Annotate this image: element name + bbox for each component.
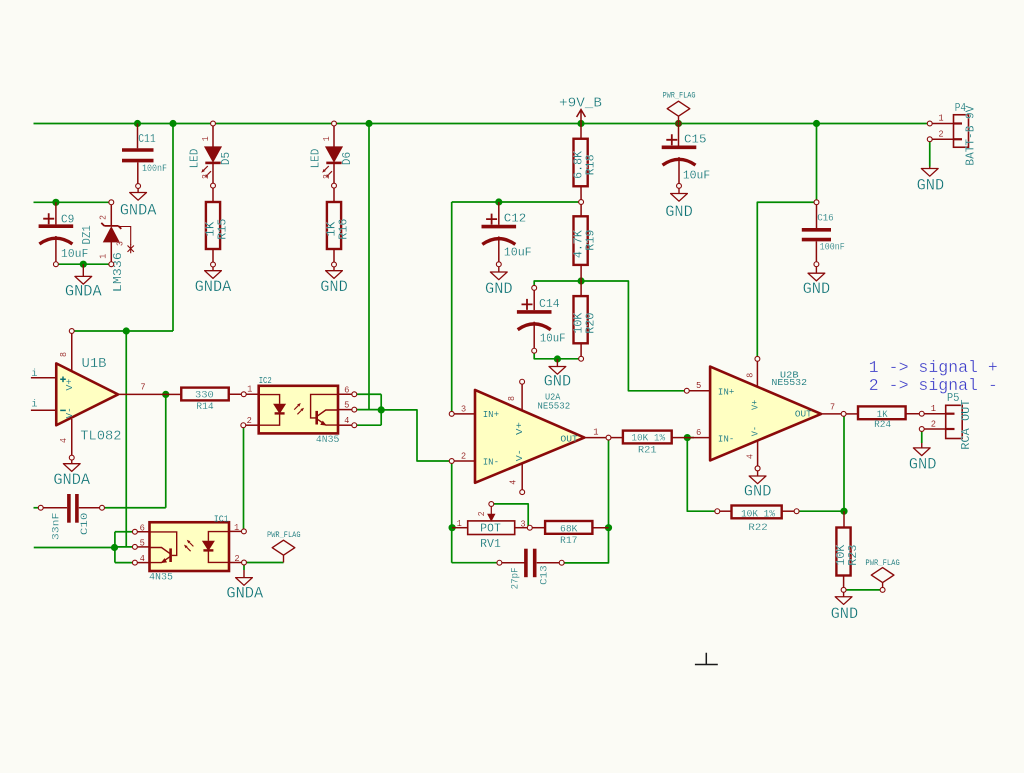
svg-text:DZ1: DZ1 [81, 225, 94, 244]
wire: R17 junction down to C13 right [562, 528, 609, 563]
svg-text:1: 1 [99, 254, 109, 259]
optocoupler IC2 4N35 [259, 386, 338, 434]
ground GNDA (C9/DZ1) [82, 264, 84, 276]
svg-text:OUT: OUT [560, 433, 578, 444]
wire: C10 left stub [34, 507, 41, 509]
PWR_FLAG at C15 rail [667, 101, 690, 123]
wire: rail drop to U1B V+ rail [172, 124, 174, 332]
svg-text:5: 5 [140, 539, 145, 549]
svg-text:C12: C12 [504, 212, 527, 225]
LED D5 [212, 124, 214, 147]
svg-text:IN+: IN+ [718, 386, 735, 397]
PWR_FLAG at R23 [871, 568, 894, 590]
svg-text:4: 4 [344, 416, 349, 426]
wire: vertical from U1B rail to IC1 pin5 [125, 331, 127, 547]
svg-text:R17: R17 [560, 535, 578, 547]
svg-text:1: 1 [247, 385, 252, 395]
ground GNDA (IC1 pin2) [243, 570, 245, 578]
op-amp U1B TL082 [56, 363, 118, 425]
wire: IC1 pin4 connect [115, 562, 135, 564]
svg-text:V+: V+ [514, 422, 525, 435]
wire: R21 right junction to U2B IN- [687, 437, 694, 439]
svg-text:IC2: IC2 [259, 375, 272, 386]
svg-text:+9V_B: +9V_B [559, 96, 602, 112]
svg-text:10K 1%: 10K 1% [631, 432, 665, 444]
svg-text:i: i [31, 368, 37, 380]
wire: middle net y=202 C12/R18 [452, 201, 581, 203]
svg-text:C15: C15 [684, 134, 707, 147]
ground GNDA (C11) [137, 186, 139, 193]
PWR_FLAG at IC1 pin2 [272, 540, 295, 562]
wire: IC2 pin2 to IC1 pin1 [243, 425, 245, 531]
wire: U2A OUT down to R17 junction [608, 438, 610, 528]
ground GND (R16) [333, 265, 335, 271]
svg-text:NE5532: NE5532 [537, 400, 570, 411]
ground GNDA (U1B pin4) [71, 458, 73, 464]
capacitor C11 [137, 124, 139, 149]
wire: R23 bottom to PWR_FLAG [844, 589, 883, 591]
capacitor C10 33nF (horizontal) [43, 507, 67, 509]
junction D6 rail drop [365, 120, 372, 127]
svg-text:D6: D6 [341, 152, 354, 165]
svg-text:GNDA: GNDA [226, 584, 263, 602]
svg-text:C16: C16 [817, 213, 834, 225]
wire: C9/DZ1 bottom net [56, 263, 111, 265]
svg-text:C13: C13 [538, 565, 550, 585]
capacitor C13 27pF (horizontal) [502, 562, 525, 564]
svg-text:GNDA: GNDA [65, 283, 102, 301]
svg-text:5: 5 [696, 381, 701, 391]
ground GND (R23) [843, 590, 845, 597]
resistor R17 68K [530, 527, 545, 529]
wire: C16 node left to U2B V+ drop [757, 202, 816, 359]
svg-text:4: 4 [59, 438, 69, 443]
svg-text:R23: R23 [847, 545, 860, 566]
ground GND (C12) [498, 264, 500, 272]
svg-text:6: 6 [140, 523, 145, 533]
junction IC2 outputs [378, 406, 385, 413]
svg-text:C10: C10 [79, 513, 91, 536]
svg-text:1: 1 [938, 114, 943, 124]
svg-text:1: 1 [234, 523, 239, 533]
capacitor C9 10uF [55, 202, 57, 224]
svg-text:V+: V+ [750, 399, 761, 410]
svg-text:1: 1 [593, 428, 598, 438]
svg-text:TL082: TL082 [80, 428, 121, 444]
svg-text:IN+: IN+ [483, 409, 500, 420]
pin end circles [814, 200, 819, 205]
resistor R20 10K [580, 281, 582, 296]
svg-text:GND: GND [831, 605, 859, 623]
wire: R22 right to R23/R24 junction [797, 510, 844, 512]
op-amp U2B NE5532 [710, 367, 821, 461]
wire: RV1 wiper to pin3 [491, 504, 528, 528]
svg-text:V-: V- [750, 426, 761, 436]
junction C15/PWR_FLAG [675, 120, 682, 127]
junction U1B pin8 rail [123, 327, 130, 334]
svg-text:10uF: 10uF [504, 247, 532, 260]
wire: IC1 pin2 GNDA stub [243, 563, 245, 571]
ground GND (P4) [929, 167, 931, 169]
junction C9/DZ1 GNDA [80, 261, 87, 268]
junction C16 rail drop [813, 120, 820, 127]
wire: IC1 pin5 connect [115, 546, 135, 548]
svg-text:C9: C9 [61, 213, 75, 226]
svg-text:BATT-B 9V: BATT-B 9V [965, 106, 978, 166]
svg-text:4N35: 4N35 [149, 572, 173, 584]
svg-text:2: 2 [931, 419, 936, 429]
wire: P5 pin2 to GND [921, 429, 923, 443]
svg-text:R22: R22 [748, 522, 767, 534]
svg-text:NE5532: NE5532 [771, 377, 807, 388]
wire: left net at y=202 (C9/DZ1) [34, 201, 112, 203]
svg-text:2: 2 [234, 554, 239, 564]
power +9V_B [577, 110, 586, 124]
wire: IC2 pin4 stub wire [354, 424, 381, 426]
wire: R19/R20 node right to U2B IN+ [581, 281, 687, 391]
svg-text:R18: R18 [584, 154, 597, 175]
junction RV1 pin1 [449, 524, 456, 531]
capacitor C14 10uF [533, 290, 535, 310]
svg-text:GND: GND [803, 280, 831, 298]
junction R19/R20 [578, 277, 585, 284]
capacitor C12 10uF [498, 202, 500, 225]
resistor R18 6.8K [580, 124, 582, 139]
capacitor C15 10uF [678, 124, 680, 146]
zener DZ1 LM336 [110, 202, 112, 225]
resistor R21 10K 1% [609, 437, 623, 439]
svg-text:4: 4 [509, 480, 519, 485]
svg-text:4N35: 4N35 [316, 434, 340, 446]
junction C12 top [495, 198, 502, 205]
wire: junction down to R22 left [687, 438, 717, 512]
resistor R22 10K 1% [717, 510, 731, 512]
wire: P4 pin2 to GND [929, 139, 931, 166]
svg-text:PWR_FLAG: PWR_FLAG [865, 560, 900, 568]
wire: U2A IN- down to RV1/C13 [451, 461, 453, 563]
svg-text:GND: GND [909, 456, 937, 474]
junction C11/rail [134, 120, 141, 127]
ground GND (C14/R20) [556, 359, 558, 367]
svg-text:R14: R14 [196, 401, 214, 413]
svg-text:7: 7 [140, 383, 145, 393]
resistor R14 330 [166, 393, 182, 395]
svg-text:2: 2 [461, 452, 466, 462]
svg-text:V-: V- [514, 449, 525, 461]
svg-text:R16: R16 [338, 219, 351, 240]
capacitor C16 100nF [816, 202, 818, 228]
wire: R19/R20 node left to C14 top [534, 281, 581, 288]
wire: C16 rail drop [816, 124, 818, 203]
wire: U1B pin8 horizontal [72, 330, 173, 332]
svg-text:3: 3 [461, 404, 466, 414]
svg-text:OUT: OUT [795, 409, 812, 420]
svg-text:7: 7 [830, 402, 835, 412]
ground GND (C15) [678, 186, 680, 194]
connector P4 BATT-B 9V [932, 123, 954, 125]
svg-text:U1B: U1B [82, 356, 107, 372]
svg-text:D5: D5 [220, 152, 233, 165]
svg-text:3: 3 [520, 519, 525, 529]
junction C14/R20 GND [554, 355, 561, 362]
wire: rail drop to IC2 pin5 [368, 124, 370, 410]
resistor R16 1K [333, 186, 335, 202]
resistor R19 4.7K [580, 202, 582, 216]
junction R21/U2B IN- [684, 434, 691, 441]
junction C9 top [52, 199, 59, 206]
wire: IC1 pin2 to PWR_FLAG [244, 562, 284, 564]
svg-text:GND: GND [320, 278, 348, 296]
resistor R24 1K [844, 413, 858, 415]
wire: IC1 pin6 connect [115, 531, 135, 533]
svg-text:33nF: 33nF [50, 513, 62, 541]
svg-text:LED: LED [309, 149, 322, 169]
svg-text:1 -> signal +: 1 -> signal + [869, 359, 998, 378]
svg-text:RV1: RV1 [480, 538, 501, 551]
LED D6 [333, 124, 335, 147]
svg-text:10uF: 10uF [61, 248, 89, 261]
svg-text:100nF: 100nF [142, 163, 167, 175]
svg-text:GNDA: GNDA [120, 202, 157, 220]
junction R17 right [605, 524, 612, 531]
svg-text:2: 2 [322, 174, 332, 179]
svg-text:LED: LED [188, 149, 201, 169]
svg-text:1: 1 [457, 519, 462, 529]
svg-text:2: 2 [477, 511, 487, 516]
wire: IC2 output bracket pin6 [354, 393, 381, 395]
svg-text:27pF: 27pF [509, 567, 521, 589]
wire: IC2 bracket vertical [380, 394, 382, 425]
wire: IC2 pin5 to junction [354, 409, 381, 411]
op-amp U2A NE5532 [475, 390, 584, 483]
svg-text:IN-: IN- [718, 434, 734, 445]
svg-text:V-: V- [64, 407, 75, 418]
svg-text:6: 6 [696, 428, 701, 438]
connector P5 RCA OUT [924, 413, 946, 415]
junction R18 top [577, 120, 584, 127]
svg-text:PWR_FLAG: PWR_FLAG [267, 532, 301, 540]
svg-text:4: 4 [746, 454, 756, 459]
wire: IC1 left input net [34, 547, 115, 549]
svg-text:R21: R21 [638, 445, 657, 457]
junction IC1 inputs [111, 544, 118, 551]
svg-text:R19: R19 [584, 230, 597, 251]
svg-text:POT: POT [480, 523, 501, 536]
svg-text:2: 2 [938, 129, 943, 139]
svg-text:V+: V+ [64, 378, 75, 390]
svg-text:6: 6 [344, 385, 349, 395]
resistor R23 10K [843, 511, 845, 527]
sheet origin mark [695, 653, 718, 665]
svg-text:GNDA: GNDA [195, 278, 232, 296]
svg-text:R24: R24 [874, 419, 891, 431]
svg-text:10uF: 10uF [540, 332, 566, 345]
optocoupler IC1 4N35 [150, 522, 230, 571]
DZ1 pin3 adjust [120, 227, 131, 246]
svg-text:C14: C14 [539, 298, 560, 311]
svg-text:GND: GND [744, 483, 772, 501]
wire: C13 left connect [452, 562, 500, 564]
ground GND (C16) [815, 264, 817, 273]
svg-text:LM336: LM336 [112, 252, 125, 292]
wire: IC1 pin bracket [114, 532, 116, 563]
svg-text:IN-: IN- [483, 456, 499, 467]
svg-text:GND: GND [665, 203, 693, 221]
wire: C10 right to U1B out drop [102, 507, 166, 509]
resistor R15 1K [212, 186, 214, 202]
svg-text:4: 4 [140, 554, 145, 564]
svg-text:GND: GND [485, 280, 513, 298]
ground GND (U2B pin4) [757, 468, 759, 476]
svg-text:3: 3 [116, 241, 126, 246]
wire: U1B out junction down [165, 394, 167, 507]
junction U1B output [162, 391, 169, 398]
svg-text:8: 8 [746, 373, 756, 378]
svg-text:2: 2 [247, 416, 252, 426]
svg-text:C11: C11 [138, 133, 156, 146]
wire: IC2 junction to U2A IN- [381, 410, 452, 461]
svg-text:8: 8 [59, 352, 69, 357]
svg-text:5: 5 [344, 401, 349, 411]
svg-text:1: 1 [931, 404, 936, 414]
svg-text:IC1: IC1 [214, 514, 229, 525]
svg-text:1: 1 [201, 136, 211, 141]
ground GNDA (R15) [212, 265, 214, 271]
wire: junction up to R24 left / U2B OUT [843, 414, 845, 511]
svg-text:RCA OUT: RCA OUT [960, 399, 973, 449]
junction R22/R23/R24 [840, 508, 847, 515]
svg-text:GND: GND [544, 372, 572, 390]
wire: C14 bottom to R20 bottom [534, 351, 581, 359]
svg-text:1: 1 [322, 136, 332, 141]
svg-text:10uF: 10uF [683, 170, 711, 183]
svg-text:R15: R15 [217, 219, 230, 240]
wire: +9V_B top rail [34, 123, 930, 125]
svg-text:68K: 68K [560, 523, 578, 535]
svg-text:2: 2 [201, 174, 211, 179]
svg-text:2 -> signal -: 2 -> signal - [869, 377, 998, 396]
wire: drop to U2A IN+ [451, 202, 453, 414]
svg-text:i: i [31, 398, 37, 410]
svg-text:100nF: 100nF [820, 242, 845, 254]
potentiometer RV1 POT [452, 527, 468, 529]
svg-text:GNDA: GNDA [53, 471, 90, 489]
ground GND (P5 pin2) [921, 443, 923, 448]
svg-text:8: 8 [507, 396, 517, 401]
junction U1B rail drop [169, 120, 176, 127]
svg-text:PWR_FLAG: PWR_FLAG [663, 92, 696, 100]
svg-text:GND: GND [917, 177, 945, 195]
svg-text:R20: R20 [584, 313, 597, 334]
svg-text:10K 1%: 10K 1% [741, 508, 776, 520]
svg-text:2: 2 [99, 215, 109, 220]
